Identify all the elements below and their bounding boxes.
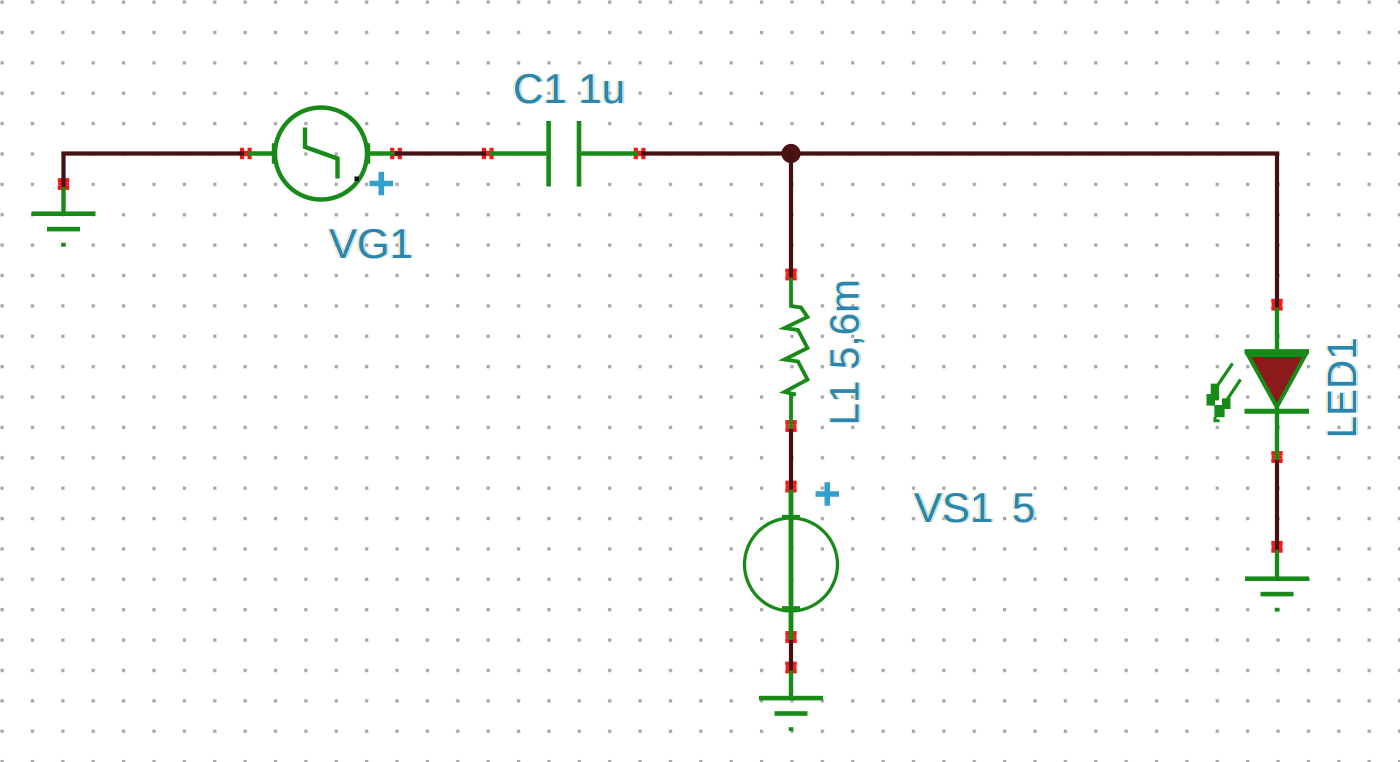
pin marks L1 pin1 xyxy=(785,269,796,281)
voltage source VS1 xyxy=(745,490,838,640)
junction node N1 xyxy=(781,144,800,163)
pin marks VG1 pin1 xyxy=(240,148,252,159)
inductor L1 xyxy=(785,278,808,430)
pin marks VG1 pin2 xyxy=(390,148,402,159)
plus sign VG1 polarity xyxy=(370,172,394,195)
svg-text:C1 1u: C1 1u xyxy=(513,65,625,112)
wire W2 xyxy=(395,151,487,155)
pin marks L1 pin2 xyxy=(785,420,796,432)
pin marks VS1 pin- xyxy=(785,631,796,643)
wire W5 xyxy=(789,429,793,490)
pin marks C1 pin2 xyxy=(634,148,646,159)
svg-text:LED1: LED1 xyxy=(1319,337,1365,438)
svg-text:5: 5 xyxy=(1012,484,1035,531)
pin marks GND1 xyxy=(58,178,69,190)
pin marks VS1 pin+ xyxy=(785,481,796,493)
svg-text:VG1: VG1 xyxy=(329,220,413,267)
pin marks LED1 anode xyxy=(1271,299,1282,311)
svg-text:L1 5,6m: L1 5,6m xyxy=(822,279,868,425)
wire W7 xyxy=(1275,460,1279,550)
wire W6 xyxy=(789,640,793,671)
voltage generator VG1 xyxy=(248,108,395,200)
pin marks C1 pin1 xyxy=(482,148,494,159)
ground GND3 xyxy=(1275,550,1279,577)
stray dark pixel on VG1 circle edge xyxy=(355,177,360,182)
ground GND1 xyxy=(61,187,65,212)
ground GND2 xyxy=(789,671,793,697)
plus sign VS1 polarity xyxy=(816,482,840,505)
LED LED1 xyxy=(1245,308,1310,460)
svg-text:VS1: VS1 xyxy=(914,484,993,531)
capacitor C1 xyxy=(489,121,638,187)
wire W3 xyxy=(641,154,1277,308)
wire W4 xyxy=(789,154,793,278)
pin marks GND2 xyxy=(785,662,796,674)
pin marks LED1 cathode xyxy=(1271,451,1282,463)
wire W1 xyxy=(64,154,245,188)
pin marks GND3 xyxy=(1271,541,1282,553)
